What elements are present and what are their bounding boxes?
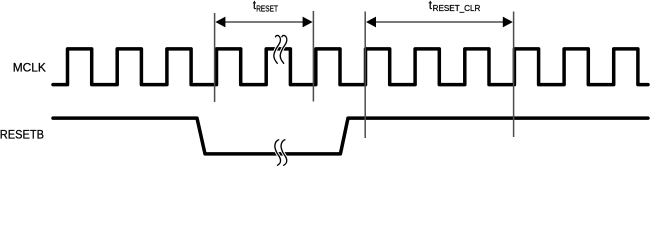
wire MCLK clock waveform (53, 49, 648, 85)
node tRESET right boundary line (312, 11, 314, 102)
break mark on MCLK high line (274, 35, 287, 63)
node tRESET left boundary line (214, 13, 216, 102)
wire tRESET_CLR dimension arrow (366, 17, 513, 28)
svg-text:RESET_CLR: RESET_CLR (433, 4, 481, 13)
break mark on RESETB low line (275, 140, 287, 165)
label tRESET (253, 0, 278, 13)
svg-text:RESET: RESET (256, 4, 278, 13)
wire tRESET dimension arrow (215, 17, 312, 28)
wire RESETB waveform (53, 118, 648, 154)
node tRESET_CLR right boundary line (513, 12, 515, 138)
svg-text:RESETB: RESETB (0, 127, 44, 141)
label tRESET_CLR (429, 0, 481, 13)
node tRESET_CLR left boundary line (364, 12, 366, 139)
svg-text:MCLK: MCLK (13, 61, 46, 75)
